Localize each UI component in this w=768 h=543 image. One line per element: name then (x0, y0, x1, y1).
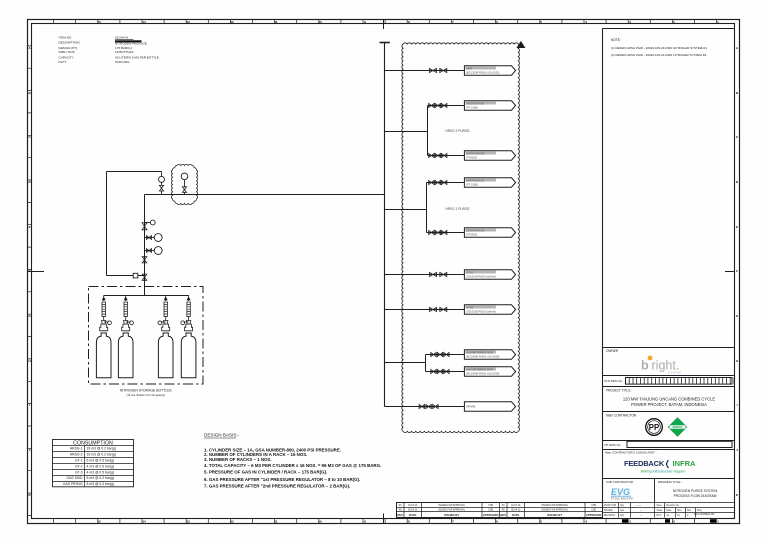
svg-text:4 m3 @ 0.5 bar(g): 4 m3 @ 0.5 bar(g) (87, 464, 115, 468)
svg-text:NITROGEN STORAGE BOTTLES: NITROGEN STORAGE BOTTLES (120, 389, 172, 393)
svg-text:GT-2: GT-2 (75, 464, 83, 468)
svg-text:DESIGN (PT): DESIGN (PT) (59, 46, 78, 50)
revision triangle marker (517, 42, 525, 48)
svg-text:10: 10 (318, 20, 322, 24)
svg-text:Date: Date (667, 509, 673, 512)
svg-text:App: App (620, 509, 625, 512)
svg-text:ISSUED FOR APPROVAL: ISSUED FOR APPROVAL (438, 504, 465, 507)
svg-text:12: 12 (230, 20, 234, 24)
svg-text:(TP2005): (TP2005) (466, 233, 477, 237)
gauge branch 1 valve (145, 237, 155, 239)
wire bypass bottom to filter (107, 275, 145, 277)
rotary diamond logo (668, 418, 687, 437)
svg-text:H: H (736, 359, 738, 363)
branch 7 valves (430, 307, 437, 311)
svg-text:CHD: CHD (591, 510, 596, 512)
svg-text:ISSUED BY: ISSUED BY (547, 513, 562, 517)
main contractor box (603, 440, 735, 442)
svg-text:REV: REV (500, 513, 506, 517)
svg-text:Main CONTRACTOR: Main CONTRACTOR (606, 414, 637, 418)
svg-text:CHD: CHD (591, 505, 596, 507)
svg-text:PP DWG No.: PP DWG No. (605, 443, 622, 447)
svg-text:PURGING: PURGING (115, 60, 130, 64)
branch 1 valves (430, 68, 437, 72)
svg-text:POWER PROJECT, BATAM, INDONESI: POWER PROJECT, BATAM, INDONESIA (631, 402, 707, 407)
svg-text:SPARE: SPARE (466, 405, 475, 409)
pipe station vertical (144, 195, 146, 296)
HRSG1 riser (426, 183, 428, 233)
svg-text:F: F (736, 269, 738, 273)
svg-text:DRAWING TITLE :: DRAWING TITLE : (658, 480, 682, 484)
revision history table (397, 503, 603, 518)
pp dwg row (603, 449, 735, 451)
svg-text:PLN BATAM: PLN BATAM (668, 372, 681, 375)
svg-text:(20020-105-23): (20020-105-23) (466, 101, 484, 105)
svg-text:(20020-105-23): (20020-105-23) (466, 151, 484, 155)
svg-text:14: 14 (142, 520, 146, 524)
consultant box (603, 478, 735, 480)
svg-text:UNIT: UNIT (466, 66, 472, 70)
spare branch pipe (385, 406, 465, 408)
svg-text:NITROGEN PURGE SYSTEM: NITROGEN PURGE SYSTEM (673, 489, 718, 493)
cylinder valves (103, 317, 105, 321)
owner box (603, 347, 735, 349)
svg-text:App: App (620, 504, 625, 507)
svg-text:REVISION: REVISION (604, 515, 615, 517)
svg-text:ISSUED: ISSUED (604, 510, 613, 512)
pipe main header to branch area (145, 194, 385, 196)
svg-text:PROJECT TITLE :: PROJECT TITLE : (606, 389, 632, 393)
svg-text:DESIGN BASIS:-: DESIGN BASIS:- (204, 433, 240, 438)
svg-text:19 m3 @ 0.2 bar(g): 19 m3 @ 0.2 bar(g) (87, 453, 116, 457)
ruler ticks top band (54, 20, 717, 24)
ruler ticks bottom band (54, 519, 717, 524)
svg-text:CHD: CHD (488, 510, 493, 512)
svg-text:13: 13 (186, 20, 190, 24)
svg-text:(TP 2108): (TP 2108) (466, 183, 478, 187)
svg-text:GT-3: GT-3 (75, 470, 83, 474)
svg-text:ISSUED FOR APPROVAL: ISSUED FOR APPROVAL (541, 509, 568, 512)
pressure regulator PR1 (142, 223, 147, 230)
branch 4 pipe (427, 182, 465, 184)
gas skid tap pipe (385, 362, 426, 364)
manifold header (104, 295, 189, 297)
description highlight bar (115, 40, 142, 42)
svg-text:GT-01: GT-01 (466, 270, 474, 274)
svg-text:175 BAR(G): 175 BAR(G) (115, 46, 132, 50)
svg-text:Revision No.: Revision No. (667, 505, 680, 507)
svg-text:(201/DUE-P&ID GasFuel): (201/DUE-P&ID GasFuel) (466, 310, 496, 314)
branch 6 valves (430, 272, 437, 276)
svg-text:(16 nos. Bottles of 6 m3 capac: (16 nos. Bottles of 6 m3 capacity) (127, 393, 166, 397)
item number underline (115, 38, 134, 40)
svg-text:GT-1: GT-1 (75, 459, 83, 463)
svg-text:4 m3 @ 0.5 bar(g): 4 m3 @ 0.5 bar(g) (87, 470, 115, 474)
svg-text:Main CONTRACTOR’S CONSULTANT :: Main CONTRACTOR’S CONSULTANT : (605, 451, 657, 455)
svg-text:(20020-105-21): (20020-105-21) (466, 178, 484, 182)
svg-text:PT ZUG INDUSTRY: PT ZUG INDUSTRY (611, 497, 634, 500)
subcontractor box (654, 479, 656, 503)
isolation valve V3 (142, 274, 147, 280)
svg-text:HRSG 1 PURGE: HRSG 1 PURGE (446, 207, 470, 211)
branch 4 valves (429, 180, 434, 184)
svg-text:(TP2005): (TP2005) (466, 156, 477, 160)
pipe header vertical (384, 43, 386, 407)
svg-text:INFRA: INFRA (673, 459, 696, 468)
svg-text:(BC13008-P0001-U01-0018): (BC13008-P0001-U01-0018) (466, 372, 499, 376)
wire bypass top header (107, 171, 162, 173)
ruler ticks right band (734, 46, 736, 516)
revision cloud around regulator station (171, 164, 197, 204)
svg-text:APPROVED: APPROVED (483, 513, 499, 517)
svg-text:— —: — — (636, 505, 642, 507)
svg-text:PROCESS FLOW DIAGRAM: PROCESS FLOW DIAGRAM (674, 494, 717, 498)
svg-text:05-04-13: 05-04-13 (511, 510, 521, 512)
svg-text:HRSG-1: HRSG-1 (70, 447, 83, 451)
svg-text:HRSG 2 PURGE: HRSG 2 PURGE (446, 129, 470, 133)
svg-text:5 m3 @ 0.5 bar(g): 5 m3 @ 0.5 bar(g) (87, 459, 115, 463)
svg-text:GT-02: GT-02 (466, 305, 474, 309)
svg-text:Zone: Zone (657, 505, 663, 507)
valve V1 below PG1 (161, 182, 163, 185)
svg-text:12: 12 (230, 520, 234, 524)
svg-text:H: H (29, 359, 31, 363)
branch 5 valves (429, 230, 434, 234)
svg-text:5. PRESSURE OF GAS IN CYLINDER: 5. PRESSURE OF GAS IN CYLINDER / RACK – … (204, 470, 327, 475)
svg-text:DATE: DATE (512, 513, 520, 517)
svg-text:SIZE / NOS: SIZE / NOS (59, 50, 75, 54)
svg-text:REV: REV (397, 513, 403, 517)
svg-text:APPROVED: APPROVED (586, 513, 602, 517)
branch 9 valves (431, 369, 436, 373)
svg-text:DRG-NUMBER-000: DRG-NUMBER-000 (694, 514, 715, 516)
svg-text:HRSG-2: HRSG-2 (70, 453, 83, 457)
svg-text:EVG: EVG (611, 487, 630, 497)
svg-text:DUTY: DUTY (59, 60, 67, 64)
svg-text:(1) REFER HRSG P&ID - 20020-10: (1) REFER HRSG P&ID - 20020-105-23-P&ID … (611, 46, 707, 50)
svg-text:(20020-105-21): (20020-105-21) (466, 228, 484, 232)
svg-text:8 m3 @ 0.2 bar(g): 8 m3 @ 0.2 bar(g) (87, 482, 115, 486)
svg-text:CHD: CHD (488, 505, 493, 507)
svg-text:I: I (29, 403, 30, 407)
svg-text:RENUKA: RENUKA (673, 426, 683, 429)
battery limit dashed box (89, 287, 204, 385)
svg-text:05-04-13: 05-04-13 (408, 510, 418, 512)
svg-text:(BC13008-P0001-U01-0015): (BC13008-P0001-U01-0015) (466, 71, 499, 75)
svg-text:01GA4-N: 01GA4-N (115, 35, 128, 39)
svg-text:E: E (736, 225, 738, 229)
svg-text:15: 15 (97, 20, 101, 24)
svg-text:ISSUED FOR APPROVAL: ISSUED FOR APPROVAL (438, 509, 465, 512)
tag to HRSG2 HP (464, 101, 515, 110)
svg-text:OWNER: OWNER (606, 349, 619, 353)
svg-text:GAS METERING SKID: GAS METERING SKID (466, 350, 493, 354)
svg-text:(201/DUE-P&ID GasFuel): (201/DUE-P&ID GasFuel) (466, 275, 496, 279)
svg-text:5 m3 @ 0.2 bar(g): 5 m3 @ 0.2 bar(g) (87, 476, 115, 480)
pln dwg row (603, 376, 735, 387)
gauge branch 2 valve (145, 250, 155, 252)
svg-text:ITEM NO: ITEM NO (59, 35, 72, 39)
branch 7 pipe (385, 309, 465, 311)
revision cloud around tie-in area (402, 43, 520, 433)
HRSG2 tap pipe (385, 131, 428, 133)
svg-text:14: 14 (142, 20, 146, 24)
tag to HRSG1 LP (464, 228, 515, 237)
svg-text:15: 15 (97, 520, 101, 524)
svg-text:01-07-13: 01-07-13 (511, 505, 521, 507)
branch 2 pipe (428, 105, 465, 107)
svg-text:App: App (620, 514, 625, 517)
svg-text:NOTE:: NOTE: (611, 38, 621, 42)
svg-text:CAPACITY: CAPACITY (59, 56, 74, 60)
pressure regulator PR2 stem and valve (184, 180, 186, 187)
spare branch valves (419, 404, 424, 408)
svg-text:SUB CONTRACTOR: SUB CONTRACTOR (606, 480, 633, 484)
pressure regulator PR2 gauge (181, 173, 188, 180)
project title box (603, 411, 735, 413)
svg-text:GAS SKID: GAS SKID (66, 476, 83, 480)
HRSG2 riser (427, 106, 429, 156)
svg-text:11: 11 (274, 20, 278, 24)
PP logo (646, 419, 663, 436)
wire bypass left vertical (106, 172, 108, 276)
HRSG1 tap pipe (385, 209, 427, 211)
bottom band accents (622, 519, 716, 523)
svg-text:(2) REFER HRSG P&ID - 20020-10: (2) REFER HRSG P&ID - 20020-105-21-P&ID … (611, 53, 707, 57)
tag to GT1 (464, 270, 515, 279)
svg-text:E: E (29, 225, 31, 229)
svg-text:b: b (641, 358, 649, 372)
tag to unit header (464, 66, 515, 75)
svg-text:NTS: NTS (657, 515, 662, 517)
pressure gauge PG3 (154, 247, 162, 255)
branch 8 valves (431, 352, 436, 356)
svg-text:4. TOTAL CAPACITY – 6 M3 PER C: 4. TOTAL CAPACITY – 6 M3 PER CYLINDER x … (204, 463, 381, 468)
tag to HRSG2 LP (464, 151, 515, 160)
svg-text:Scale: Scale (657, 510, 663, 512)
svg-text:7. GAS PRESSURE AFTER "2nd PRE: 7. GAS PRESSURE AFTER "2nd PRESSURE REGU… (204, 484, 350, 489)
svg-text:(BC13008-P0001-U01-0018): (BC13008-P0001-U01-0018) (466, 355, 499, 359)
consumption table (53, 440, 134, 487)
svg-text:40 LITERS/ 6 M3 PER BOTTLE: 40 LITERS/ 6 M3 PER BOTTLE (115, 56, 159, 60)
tag to gas metering skid 2 (464, 367, 515, 376)
tag spare (464, 402, 515, 411)
svg-text:DATE: DATE (409, 513, 417, 517)
isolation valve V2 (142, 257, 147, 263)
title block left border (602, 29, 604, 518)
in-line filter F1 (133, 273, 138, 278)
branch 2 valves (429, 103, 434, 107)
svg-text:PURP. FOR: PURP. FOR (604, 505, 617, 507)
svg-text:120 MW TANJUNG UNCANG COMBINED: 120 MW TANJUNG UNCANG COMBINED CYCLE (623, 396, 715, 401)
branch 8 pipe (426, 354, 465, 356)
revision strip (603, 503, 735, 513)
svg-text:PP: PP (649, 423, 659, 432)
svg-text:(TP 2108): (TP 2108) (466, 106, 478, 110)
svg-text:3. NUMBER OF RACKS – 1 NOS.: 3. NUMBER OF RACKS – 1 NOS. (204, 457, 272, 462)
svg-text:ISSUED BY: ISSUED BY (444, 513, 459, 517)
tag to HRSG1 HP (464, 178, 515, 187)
svg-text:Making Infrastructure Happen: Making Infrastructure Happen (641, 469, 686, 473)
svg-text:10: 10 (318, 520, 322, 524)
header top cap (380, 42, 390, 44)
svg-text:Dwg: Dwg (697, 510, 702, 512)
svg-text:Size: Size (677, 510, 682, 512)
pln dwg number cells (626, 378, 733, 385)
svg-text:16 BOTTLES: 16 BOTTLES (115, 50, 133, 54)
svg-text:6. GAS PRESSURE AFTER "1st PRE: 6. GAS PRESSURE AFTER "1st PRESSURE REGU… (204, 477, 360, 482)
title block top border (603, 28, 735, 30)
branch 6 pipe (385, 274, 465, 276)
branch 1 pipe (385, 70, 465, 72)
tag to gas metering skid 1 (464, 350, 515, 359)
svg-text:ISSUED FOR APPROVAL: ISSUED FOR APPROVAL (541, 504, 568, 507)
pressure gauge PG1 (161, 172, 163, 177)
svg-text:PLN DWG No.: PLN DWG No. (605, 379, 623, 383)
svg-text:GAS PIPING: GAS PIPING (63, 482, 83, 486)
svg-text:GAS METERING SKID: GAS METERING SKID (466, 367, 493, 371)
ruler ticks left band (28, 46, 32, 516)
flexible pigtail hoses (103, 295, 105, 301)
pressure gauge PG2 (154, 234, 162, 242)
svg-text:right.: right. (652, 358, 680, 372)
gas skid riser (425, 355, 427, 372)
svg-text:13: 13 (186, 520, 190, 524)
nitrogen bottles B1-B4 (96, 333, 111, 378)
svg-text:19 m3 @ 0.2 bar(g): 19 m3 @ 0.2 bar(g) (87, 447, 116, 451)
svg-text:01-07-13: 01-07-13 (408, 505, 418, 507)
branch 3 pipe (428, 155, 465, 157)
branch 3 valves (429, 153, 434, 157)
branch 9 pipe (426, 371, 465, 373)
svg-text:11: 11 (274, 520, 278, 524)
tag to GT2 (464, 305, 515, 314)
branch 5 pipe (427, 232, 465, 234)
svg-text:FEEDBACK❬: FEEDBACK❬ (624, 459, 670, 469)
svg-text:DESCRIPTION: DESCRIPTION (59, 40, 80, 44)
